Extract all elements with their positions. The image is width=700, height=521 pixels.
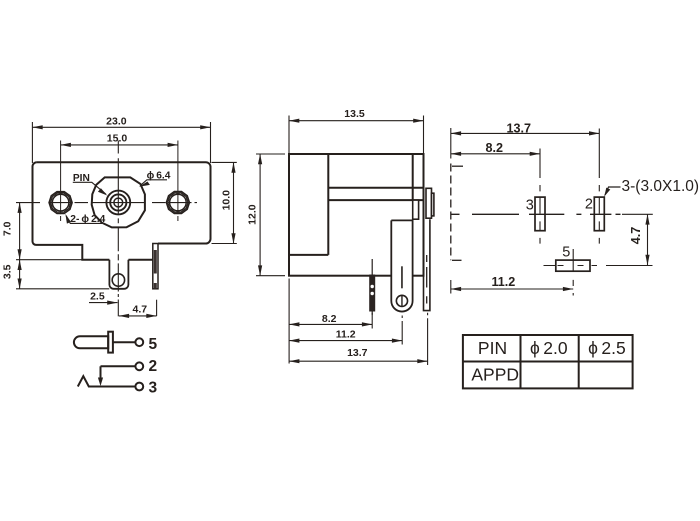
dimension 23.0 (32, 122, 210, 163)
wire terminal 3 with spring contact (78, 376, 135, 386)
rv hidden body dashed outline (451, 164, 621, 261)
label phi 6.4 with leader (139, 171, 171, 187)
svg-text:13.5: 13.5 (344, 108, 365, 120)
label 2-phi2.4 with leader (65, 214, 105, 225)
svg-text:2.5: 2.5 (90, 290, 105, 302)
dimension 7.0 (16, 203, 82, 260)
svg-text:3-(3.0X1.0): 3-(3.0X1.0) (622, 178, 700, 195)
barrel circles (106, 191, 130, 215)
svg-text:APPD: APPD (471, 364, 519, 384)
dimension 2.5 (89, 302, 118, 304)
wire terminal 2 (101, 365, 136, 367)
svg-text:8.2: 8.2 (322, 313, 337, 325)
front view barrel boss polygon (92, 177, 145, 227)
svg-text:13.7: 13.7 (506, 122, 531, 136)
dimension 15.0 (61, 144, 178, 146)
svg-text:12.0: 12.0 (247, 204, 259, 225)
front view mounting tab (109, 260, 128, 289)
dimension 4.7 (right view) (592, 214, 653, 265)
front view right pin (153, 244, 158, 289)
svg-text:3: 3 (148, 379, 157, 396)
mv black pin (369, 259, 375, 315)
rv pin 2 (585, 129, 604, 244)
svg-text:11.2: 11.2 (336, 328, 356, 340)
dimension 8.2 (right view) (451, 153, 540, 155)
svg-text:8.2: 8.2 (485, 141, 503, 155)
plug barrel symbol (74, 332, 113, 353)
centerlines front view (16, 141, 197, 317)
switch arm with arrow (100, 366, 102, 379)
svg-text:2: 2 (585, 197, 593, 213)
svg-text:3.5: 3.5 (2, 264, 14, 279)
dimension 4.7 (119, 300, 157, 316)
svg-text:2: 2 (148, 358, 157, 375)
rv pin 5 (544, 245, 591, 296)
rv pin 3 (526, 149, 545, 244)
dimension 11.2 (middle view) (289, 316, 402, 345)
dimension 10.0 (212, 162, 237, 243)
svg-text:13.7: 13.7 (347, 347, 368, 359)
dimension 11.2 (right view) (451, 280, 573, 294)
left hex nut (49, 192, 72, 214)
front view body outline (33, 162, 211, 260)
mv pin2 plate side (413, 188, 434, 310)
label 3-(3.0X1.0) with leader (604, 178, 699, 197)
wire to terminal 5 (113, 341, 135, 343)
right hex nut (166, 192, 189, 214)
svg-text:7.0: 7.0 (2, 221, 14, 236)
svg-text:4.7: 4.7 (629, 227, 643, 245)
svg-text:11.2: 11.2 (491, 275, 515, 289)
dimension 13.7 (right view) (451, 128, 600, 159)
dimension 3.5 (16, 260, 109, 289)
terminal circle 5 (135, 338, 143, 346)
svg-text:5: 5 (148, 336, 157, 353)
svg-text:23.0: 23.0 (106, 116, 127, 128)
svg-text:ϕ 2.0: ϕ 2.0 (530, 338, 568, 358)
svg-text:4.7: 4.7 (132, 304, 147, 316)
dimension 13.7 (middle view) (289, 313, 428, 365)
dimension 12.0 (256, 154, 285, 276)
mv center lug (391, 220, 412, 311)
svg-text:15.0: 15.0 (107, 133, 128, 145)
dimension 13.5 (289, 116, 424, 155)
svg-text:10.0: 10.0 (221, 190, 233, 211)
svg-text:ϕ 2.5: ϕ 2.5 (588, 338, 626, 358)
svg-text:PIN: PIN (478, 338, 507, 358)
dimension 8.2 (middle view) (289, 279, 372, 364)
tab hole (112, 274, 124, 286)
svg-text:5: 5 (562, 245, 570, 261)
mv body (289, 154, 424, 276)
svg-text:3: 3 (526, 197, 534, 213)
